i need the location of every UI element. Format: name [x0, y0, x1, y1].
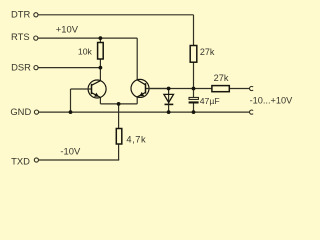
junction DSR/10k [99, 66, 103, 70]
diode cathode lead [168, 104, 170, 112]
junction diode bottom [167, 110, 171, 114]
diode anode lead [168, 89, 170, 104]
wire DTR corner down to R 27k [193, 15, 195, 46]
wire GND rail [39, 111, 250, 113]
transistor T1 emitter [92, 93, 101, 98]
wire RTS down to T2 collector [136, 38, 138, 80]
svg-text:4,7k: 4,7k [126, 134, 146, 144]
terminal TXD [34, 158, 38, 162]
capacitor top lead [193, 89, 195, 98]
wire output rail right [229, 88, 249, 90]
svg-text:DTR: DTR [11, 8, 30, 19]
terminal DTR [34, 13, 38, 17]
wire DSR horizontal [38, 67, 100, 69]
transistor T2 emitter arrow [139, 92, 144, 96]
wire 27k bottom to node [193, 62, 195, 88]
svg-text:DSR: DSR [11, 62, 31, 73]
svg-text:27k: 27k [200, 47, 215, 57]
transistor T2 base lead [146, 88, 169, 90]
junction diode top [167, 87, 171, 91]
transistor T2 circle [131, 79, 149, 97]
diode triangle [164, 94, 174, 102]
wire RTS horizontal [38, 37, 137, 39]
capacitor bottom plate [189, 101, 199, 103]
wire 10k top lead [99, 38, 101, 42]
transistor T1 collector [92, 81, 101, 86]
capacitor bottom lead [193, 104, 195, 113]
svg-text:27k: 27k [214, 73, 229, 83]
resistor 27k vertical [190, 46, 197, 63]
diode cathode bar [165, 103, 174, 105]
terminal output minus [250, 110, 254, 114]
junction RTS/10k [99, 36, 103, 40]
wire TXD horizontal [39, 159, 119, 161]
transistor T2 emitter [137, 92, 145, 97]
terminal RTS [34, 36, 38, 40]
svg-text:TXD: TXD [11, 156, 30, 167]
wire 10k bottom lead to T1 collector [99, 59, 101, 81]
terminal DSR [34, 66, 38, 70]
wire emitter node down to R 4,7k [118, 104, 120, 129]
capacitor top plate [189, 97, 198, 99]
svg-text:+10V: +10V [56, 23, 79, 34]
wire T1 base to GND vertical [70, 89, 72, 112]
resistor 10k [98, 43, 104, 60]
wire 4,7k bottom lead [118, 144, 120, 160]
svg-text:10k: 10k [78, 47, 93, 57]
wire T2 emitter drop [136, 97, 138, 104]
transistor T2 collector [137, 80, 145, 85]
transistor T2 base bar [145, 83, 147, 93]
svg-text:-10...+10V: -10...+10V [250, 96, 294, 106]
svg-text:GND: GND [10, 106, 31, 117]
junction T1 base / GND [69, 110, 73, 114]
junction cap top [192, 87, 196, 91]
junction emitter node [117, 102, 121, 106]
wire emitter junction line [100, 103, 137, 105]
wire T1 emitter drop [99, 97, 101, 104]
transistor T1 base bar [91, 84, 93, 94]
resistor 4,7k [116, 129, 122, 145]
transistor T1 base lead [71, 88, 92, 90]
svg-text:47µF: 47µF [200, 96, 220, 106]
terminal output plus [250, 86, 254, 90]
terminal GND [34, 110, 38, 114]
resistor 27k horizontal [212, 86, 229, 92]
svg-text:RTS: RTS [11, 31, 30, 42]
wire DTR horizontal [38, 14, 194, 16]
transistor T1 emitter arrow [94, 93, 99, 97]
transistor T1 circle [88, 80, 106, 98]
wire output rail left [149, 88, 212, 90]
junction cap bottom [192, 110, 196, 114]
svg-text:-10V: -10V [60, 146, 81, 157]
